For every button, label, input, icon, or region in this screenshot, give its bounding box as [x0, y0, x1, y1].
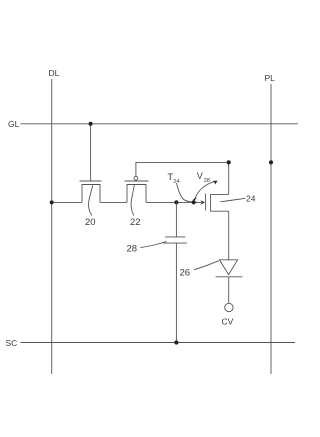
- leader line for 28: [141, 242, 167, 248]
- label T24 (node name): [168, 172, 180, 185]
- node: junction top rail / drain: [227, 160, 231, 164]
- capacitor 28: [163, 202, 187, 342]
- node: junction GL / gate 20: [89, 122, 93, 126]
- svg-text:SC: SC: [6, 338, 18, 348]
- svg-text:28: 28: [127, 244, 138, 255]
- svg-text:20: 20: [85, 217, 96, 228]
- wire: between transistor 20 and transistor 22: [100, 201, 127, 203]
- leader line for 26: [194, 261, 219, 270]
- transistor 22: [125, 181, 149, 202]
- leader line for 24: [221, 198, 246, 202]
- transistor 24 (rotated, gate at left): [206, 194, 229, 212]
- leader line for T24: [177, 183, 199, 202]
- wire: diode 26 to terminal CV: [228, 277, 230, 304]
- wire: data line DL (vertical): [51, 79, 53, 374]
- svg-text:PL: PL: [265, 73, 276, 83]
- terminal CV (circle): [225, 303, 233, 311]
- curved voltage arrow V28: [195, 181, 216, 199]
- node: junction top rail / PL: [269, 160, 273, 164]
- leader line for 22: [131, 185, 134, 216]
- diode 26: [216, 260, 243, 277]
- transistor 20: [80, 181, 102, 202]
- svg-text:V: V: [197, 171, 203, 181]
- label V28 (voltage arrow): [197, 171, 210, 184]
- wire: row wire from transistor 22 to gate of transistor 24: [146, 201, 201, 203]
- svg-text:22: 22: [130, 217, 141, 228]
- node: junction row wire / capacitor branch: [174, 200, 178, 204]
- node: junction DL / row wire: [50, 200, 54, 204]
- wire: scan line SC (horizontal): [21, 342, 296, 344]
- wire: row wire from DL to transistor 20: [52, 201, 82, 203]
- svg-text:28: 28: [204, 178, 210, 184]
- svg-text:26: 26: [180, 267, 191, 278]
- wire: gate of transistor 22 up to top rail: [136, 162, 229, 176]
- wire: power line PL (vertical): [270, 84, 272, 374]
- wire: gate line GL (horizontal): [21, 123, 299, 125]
- svg-text:24: 24: [246, 194, 256, 204]
- node: dot at lower end of V28 arrow: [192, 200, 196, 204]
- svg-text:CV: CV: [222, 317, 234, 327]
- arrowhead into gate of transistor 24: [200, 200, 205, 204]
- wire: drain of transistor 24 up to top rail: [228, 162, 230, 194]
- wire: source of transistor 24 down to diode 26: [228, 211, 230, 260]
- leader line for 20: [88, 185, 92, 215]
- contact circle at gate of 22: [134, 176, 138, 180]
- wire: gate of transistor 20 from GL: [90, 124, 92, 181]
- svg-text:DL: DL: [49, 68, 60, 78]
- svg-text:GL: GL: [8, 119, 20, 129]
- node: junction capacitor branch / SC: [174, 340, 178, 344]
